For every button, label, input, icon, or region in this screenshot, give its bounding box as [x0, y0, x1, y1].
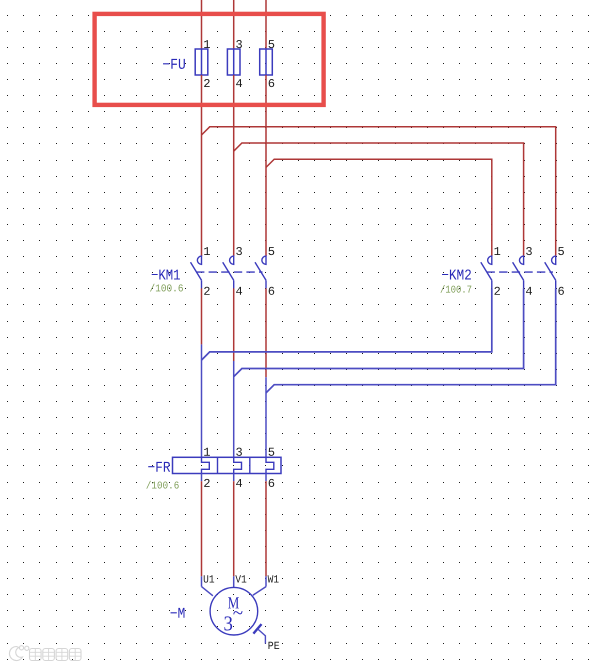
KM1 pole 3 bottom pin 6: [269, 287, 275, 295]
wire W red segment to motor: [265, 481, 267, 576]
wire T2 KM1 lower red segment: [233, 288, 235, 361]
label FR cross-reference /100.6: [146, 481, 178, 489]
contactor KM1 pole 3: [255, 256, 266, 288]
wire U blue drop to motor: [201, 576, 203, 586]
label -KM1: [152, 270, 180, 280]
wire L3 fuse to KM1: [265, 75, 267, 256]
KM2 mechanical linkage dashed line: [487, 271, 554, 273]
wire U FR exit blue: [201, 474, 203, 482]
wire KM2-T3 return to phase column: [266, 288, 556, 393]
KM1 mechanical linkage dashed line: [196, 271, 263, 273]
label -KM2: [442, 269, 471, 279]
fuse FU element 2 body: [227, 49, 240, 75]
KM2 pole 2 top pin 3: [526, 247, 532, 255]
wire T3 KM1 lower red segment: [265, 288, 267, 377]
wire L2 branch to KM2: [234, 143, 524, 256]
label KM2 cross-reference /100.7: [440, 285, 471, 293]
FR pole 3 bottom pin 6: [269, 479, 275, 487]
FR pole 3 top pin 5: [269, 448, 275, 456]
motor terminal W1 label: [268, 575, 279, 582]
KM2 pole 1 bottom pin 2: [494, 287, 500, 295]
wire L2 supply drop: [233, 0, 235, 49]
KM1 pole 2 bottom pin 4: [236, 287, 242, 295]
wire W blue drop to motor: [265, 576, 267, 586]
wire KM2-T2 return to phase column: [234, 288, 524, 376]
KM1 pole 2 top pin 3: [236, 247, 242, 255]
motor numeral 3: [224, 616, 232, 630]
motor terminal U1 label: [204, 575, 214, 582]
FR pole 1 bottom pin 2: [204, 479, 210, 487]
wire L3 branch to KM2: [266, 159, 492, 256]
PE wire: [258, 629, 266, 644]
label -M: [171, 608, 185, 618]
motor tilde: [233, 611, 242, 614]
KM2 pole 1 top pin 1: [494, 247, 500, 255]
watermark logo and text: [9, 646, 81, 661]
wire U diagonal into motor: [202, 587, 213, 596]
wire V FR exit blue: [233, 474, 235, 482]
wire W FR exit blue: [265, 474, 267, 482]
fuse FU pin 3 label: [236, 40, 242, 48]
fuse FU element 3 body: [260, 49, 273, 75]
KM2 pole 3 bottom pin 6: [558, 287, 564, 295]
FR pole 1 top pin 1: [204, 448, 210, 456]
heater element FR pole 3: [266, 457, 274, 473]
KM2 pole 2 bottom pin 4: [526, 287, 532, 295]
motor M1 circle: [210, 587, 258, 635]
heater element FR pole 2: [234, 457, 242, 473]
red highlight frame around FU section: [95, 14, 324, 105]
fuse FU pin 5 label: [269, 40, 275, 48]
fuse FU pin 2 label: [204, 79, 210, 87]
wire U red segment to motor: [201, 481, 203, 576]
wire T2 junction to FR blue segment: [233, 361, 235, 457]
wire V red segment to motor: [233, 481, 235, 576]
FR pole 2 top pin 3: [236, 448, 242, 456]
wire W diagonal into motor: [253, 587, 266, 596]
contactor KM2 pole 2: [513, 256, 524, 288]
fuse FU pin 6 label: [269, 79, 275, 87]
contactor KM2 pole 3: [545, 256, 556, 288]
label -FU: [163, 59, 185, 69]
wire V blue drop to motor: [233, 576, 235, 587]
wire L1 branch to KM2: [202, 127, 556, 256]
thermal relay FR body: [173, 457, 282, 473]
label KM1 cross-reference /100.6: [150, 284, 183, 292]
wire KM2-T1 return to phase column: [202, 288, 492, 360]
contactor KM1 pole 2: [223, 256, 234, 288]
label PE: [268, 642, 279, 649]
wire L2 fuse to KM1: [233, 75, 235, 256]
motor terminal V1 label: [235, 575, 246, 582]
fuse FU pin 4 label: [236, 79, 242, 87]
heater element FR pole 1: [202, 457, 210, 473]
wire T1 KM1 lower red segment: [201, 288, 203, 344]
KM1 pole 1 bottom pin 2: [204, 287, 210, 295]
wire T1 junction to FR blue segment: [201, 344, 203, 457]
wire L1 supply drop: [201, 0, 203, 49]
fuse FU element 1 body: [195, 49, 208, 75]
wire T3 junction to FR blue segment: [265, 377, 267, 457]
FR pole 2 bottom pin 4: [236, 479, 242, 487]
KM1 pole 1 top pin 1: [204, 247, 210, 255]
motor letter M: [228, 597, 239, 608]
wire L1 fuse to KM1: [201, 75, 203, 256]
contactor KM1 pole 1: [191, 256, 202, 288]
KM1 pole 3 top pin 5: [269, 247, 275, 255]
KM2 pole 3 top pin 5: [558, 247, 564, 255]
label -FR: [148, 462, 170, 472]
PE terminal tick: [253, 624, 261, 634]
wire L3 supply drop: [265, 0, 267, 49]
fuse FU pin 1 label: [204, 40, 210, 48]
contactor KM2 pole 1: [481, 256, 492, 288]
